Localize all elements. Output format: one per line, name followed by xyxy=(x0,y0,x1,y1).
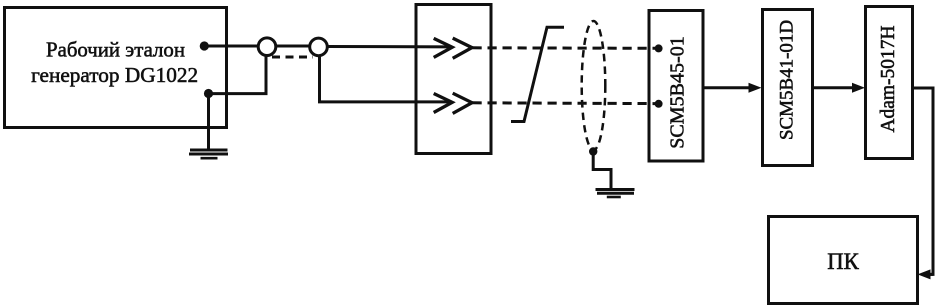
terminal dot: generator LO output xyxy=(204,89,213,98)
svg-text:генератор DG1022: генератор DG1022 xyxy=(31,63,198,87)
svg-text:SCM5B45-01: SCM5B45-01 xyxy=(667,36,689,149)
cable shield ellipse xyxy=(582,21,606,150)
wire: left connector shield down and left to generator LO xyxy=(209,56,267,94)
wire: dashed signal line channel 1 to SCM5B45-01 xyxy=(473,46,658,50)
wire: dashed shield link between connectors xyxy=(272,56,313,59)
module box SCM5B45-01 xyxy=(649,11,703,162)
computer box ПК xyxy=(769,217,918,304)
connector circle (left) xyxy=(258,38,276,56)
svg-text:ПК: ПК xyxy=(827,249,859,274)
wire: solid link between connectors xyxy=(276,45,310,48)
terminal dot: SCM5B45-01 input 1 xyxy=(655,44,663,52)
svg-text:SCM5B41-01D: SCM5B41-01D xyxy=(777,20,798,140)
module box Adam-5017H xyxy=(866,7,913,159)
svg-text:Рабочий эталон: Рабочий эталон xyxy=(46,38,185,62)
arrow: SCM5B41-01D to Adam-5017H xyxy=(813,83,866,93)
terminal dot: generator HI output xyxy=(200,41,209,50)
wire: Adam-5017H output to PC with arrow xyxy=(913,88,934,279)
wire: right connector to amplifier input 1 xyxy=(327,45,451,48)
svg-text:Adam-5017H: Adam-5017H xyxy=(878,26,899,133)
ground: generator earth symbol xyxy=(189,150,228,158)
wire: shield to ground xyxy=(593,152,611,189)
ground: shield earth symbol xyxy=(596,190,635,198)
generator box G1: Рабочий эталон генератор DG1022 xyxy=(5,8,227,128)
terminal dot: SCM5B45-01 input 2 xyxy=(655,100,663,108)
buffer chevrons channel 1 xyxy=(434,38,472,58)
amplifier box U1 (dual buffer) xyxy=(416,5,491,154)
cable break symbol xyxy=(511,27,564,121)
module box SCM5B41-01D xyxy=(763,10,813,166)
wire: right connector down and to amplifier input 2 xyxy=(320,56,452,102)
wire: dashed signal line channel 2 to SCM5B45-01 xyxy=(473,101,658,105)
wire: generator LO to ground xyxy=(207,94,210,150)
arrow: SCM5B45-01 to SCM5B41-01D xyxy=(702,83,762,93)
connector circle (right) xyxy=(310,38,328,56)
junction dot on shield xyxy=(589,147,597,155)
buffer chevrons channel 2 xyxy=(434,93,472,113)
wire: generator HI output to left connector xyxy=(204,45,258,48)
